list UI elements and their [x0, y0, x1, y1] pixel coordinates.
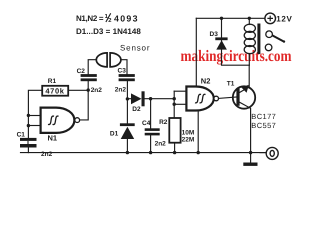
svg-text:2n2: 2n2: [115, 86, 127, 93]
junction N1 upper input: [27, 114, 30, 117]
svg-text:4093: 4093: [114, 13, 138, 23]
NAND gate N1: [41, 108, 80, 143]
junction D3 top rail: [220, 17, 223, 20]
output terminal 0: [266, 147, 278, 159]
svg-text:C4: C4: [142, 120, 151, 127]
svg-text:BC557: BC557: [251, 121, 275, 130]
wire supply drop to N2: [195, 18, 197, 87]
note N1,N2 = 1/2 4093: [76, 13, 138, 24]
junction C4 bottom rail: [149, 151, 152, 154]
wire bottom rail 0V: [21, 152, 266, 154]
svg-text:D1...D3 = 1N4148: D1...D3 = 1N4148: [76, 27, 141, 36]
junction T1 collector rail ground: [249, 151, 252, 154]
wire N2 upper input: [174, 90, 186, 92]
wire C3 bottom to D1 D2 node: [126, 81, 128, 123]
svg-text:470k: 470k: [45, 87, 64, 96]
svg-text:C1: C1: [17, 131, 26, 138]
wire relay coil top stub: [248, 18, 250, 24]
transistor T1 BC177/BC557: [227, 81, 276, 130]
svg-text:D3: D3: [210, 31, 219, 38]
NAND gate N2: [186, 77, 218, 111]
wire D3 bottom stub: [222, 40, 250, 65]
wire R1 right lead: [68, 89, 88, 91]
wire C4 top stub: [150, 99, 152, 129]
junction N2 bottom rail: [197, 151, 200, 154]
junction N2 input tie upper: [173, 97, 176, 100]
wire N2 output to T1 base: [219, 97, 237, 98]
wire N2 input tie vertical: [173, 91, 175, 118]
wire junction down to N1 output: [80, 90, 89, 120]
ground: [243, 163, 257, 166]
svg-text:R1: R1: [48, 78, 57, 85]
wire C2 bottom to junction: [87, 81, 89, 90]
wire D2 cathode to node: [145, 98, 175, 100]
resistor R2 10M/22M: [159, 118, 194, 144]
wire output terminal lead: [260, 152, 266, 154]
fraction slash: [106, 13, 111, 22]
svg-text:BC177: BC177: [251, 112, 275, 121]
capacitor C2: [77, 68, 103, 94]
wire D3 top stub: [221, 18, 223, 37]
svg-text:N1: N1: [48, 134, 58, 143]
capacitor C4: [142, 120, 166, 148]
wire sensor right to C3: [120, 60, 127, 74]
diode D1: [110, 123, 135, 139]
svg-text:12V: 12V: [276, 15, 292, 24]
svg-text:D2: D2: [132, 106, 141, 113]
relay coil: [244, 24, 255, 54]
svg-text:C2: C2: [77, 68, 86, 75]
junction N1 lower input: [27, 124, 30, 127]
supply terminal +12V: [265, 13, 293, 24]
svg-text:2n2: 2n2: [41, 151, 53, 158]
diode D2: [131, 91, 145, 113]
wire relay coil bottom stub: [248, 54, 250, 66]
relay core bar: [257, 24, 260, 55]
wire sensor left to C2: [88, 60, 96, 74]
svg-text:R2: R2: [159, 119, 168, 126]
wire ground stub: [250, 153, 252, 163]
wire N2 bottom to rail: [197, 111, 199, 153]
svg-text:C3: C3: [118, 68, 127, 75]
svg-text:T1: T1: [227, 81, 235, 88]
svg-text:D1: D1: [110, 131, 119, 138]
svg-text:makingcircuits.com: makingcircuits.com: [181, 48, 293, 65]
wire T1 emitter lead: [240, 65, 250, 92]
wire T1 collector lead: [240, 102, 251, 152]
relay contact: [265, 31, 285, 51]
svg-text:22M: 22M: [182, 137, 195, 144]
wire top rail +12V: [196, 17, 265, 19]
svg-text:N2: N2: [201, 77, 211, 86]
svg-text:N1,N2 =: N1,N2 =: [76, 14, 104, 23]
wire N2 lower input: [174, 103, 186, 105]
wire N1 lower input: [28, 125, 40, 127]
diode D3: [210, 31, 228, 49]
junction R2 bottom rail: [173, 151, 176, 154]
resistor R1 470k: [42, 78, 68, 96]
wire D1 bottom stub: [126, 139, 128, 153]
svg-text:2n2: 2n2: [91, 87, 103, 94]
wire D2 anode stub: [127, 98, 131, 100]
svg-text:Sensor: Sensor: [120, 43, 150, 52]
junction N2 input tie lower: [173, 103, 176, 106]
junction D1 bottom rail: [126, 151, 129, 154]
wire R2 bottom stub: [174, 143, 176, 153]
svg-text:10M: 10M: [182, 130, 195, 137]
capacitor C3: [115, 68, 135, 94]
wire C4 bottom stub: [150, 135, 152, 152]
wire C1 bottom stub: [27, 148, 29, 153]
junction C4 top node: [149, 97, 152, 100]
capacitor C1: [17, 131, 53, 158]
sensor electrodes: [96, 53, 121, 67]
junction R1 C2 N1 output node: [87, 88, 90, 91]
junction C3 D1 D2 node: [126, 97, 129, 100]
wire N1 upper input: [28, 115, 40, 117]
wire R1 left lead and left vertical: [28, 90, 42, 138]
junction relay coil top rail: [248, 17, 251, 20]
svg-text:2n2: 2n2: [155, 141, 167, 148]
